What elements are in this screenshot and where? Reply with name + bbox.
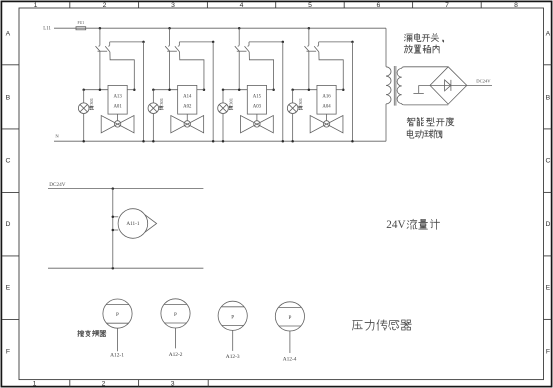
switch Q3 (2-pole linked contact): [235, 45, 249, 52]
switch Q2 (2-pole linked contact): [165, 45, 179, 52]
wire: branch 1 coil node horizontals: [82, 88, 134, 91]
switch Q4 (2-pole linked contact): [304, 45, 318, 52]
transformer T1 secondary winding: [397, 68, 402, 103]
transformer T1 core: [394, 66, 396, 106]
svg-text:F: F: [546, 348, 550, 355]
svg-text:A12-1: A12-1: [110, 353, 124, 359]
node: branch 4 tap on L11 bus: [308, 27, 311, 30]
svg-text:7: 7: [445, 2, 449, 9]
node: branch 2 tap on L11 bus: [168, 27, 171, 30]
wire L11 bus: [54, 27, 386, 29]
svg-text:A12-3: A12-3: [226, 354, 240, 360]
svg-text:F: F: [6, 348, 10, 355]
svg-text:B: B: [546, 94, 551, 101]
wire: branch 4 left pole down to coil node: [308, 51, 310, 89]
pressure sensor A12-2: [161, 299, 190, 358]
wire: branch 2 left pole down to coil node: [169, 51, 171, 89]
svg-text:L11: L11: [43, 27, 51, 32]
motor ball valve V2: [171, 116, 204, 133]
svg-text:B: B: [6, 94, 11, 101]
wire: branch 3 return vertical to N: [282, 42, 285, 143]
svg-text:A02: A02: [183, 104, 192, 109]
svg-text:P: P: [231, 314, 234, 320]
wire: branch 4 return vertical to N: [351, 42, 354, 143]
svg-text:A14: A14: [183, 94, 192, 99]
net label N: [55, 133, 59, 138]
svg-text:DC24V: DC24V: [49, 182, 65, 188]
svg-text:301: 301: [298, 97, 303, 105]
wire: secondary to rectifier top: [402, 67, 449, 69]
lamp HL3 (indicator): [218, 90, 229, 143]
lamp label (rotated) 301: [298, 97, 303, 110]
transformer T1 primary winding: [386, 67, 391, 104]
pressure sensor A12-3: [218, 301, 247, 360]
svg-text:3: 3: [171, 381, 175, 388]
bridge rectifier U1 (diamond): [430, 67, 467, 104]
right ruler ticks: [544, 65, 552, 320]
left ruler row letters A-F: [5, 30, 10, 355]
svg-text:301: 301: [159, 97, 164, 105]
svg-text:A: A: [6, 30, 11, 37]
wire: branch 1 right pole step down to box: [110, 52, 136, 91]
lamp label (rotated) 301: [229, 97, 234, 110]
svg-text:P: P: [288, 315, 291, 321]
svg-text:DC24V: DC24V: [476, 79, 491, 84]
net label L11: [43, 27, 51, 32]
wire: branch 2 coil node horizontals: [152, 88, 204, 91]
svg-text:3: 3: [171, 2, 175, 9]
pressure sensor A12-4: [275, 302, 304, 363]
flow meter A11-1: [118, 209, 157, 239]
top ruler ticks: [70, 2, 481, 8]
svg-text:A13: A13: [113, 94, 122, 99]
svg-text:1: 1: [34, 2, 38, 9]
lamp HL1 (indicator): [78, 90, 89, 143]
svg-text:A04: A04: [322, 104, 331, 109]
svg-text:E: E: [546, 285, 551, 292]
wire: branch 3 left pole down to coil node: [238, 51, 240, 89]
wire: branch 2 right pole step down to box: [180, 52, 206, 91]
wire: DC output: [467, 84, 492, 86]
svg-text:A01: A01: [113, 104, 122, 109]
wire: branch 1 return vertical to N: [142, 42, 145, 143]
wire N bus: [54, 140, 386, 142]
net label DC24V: [476, 79, 491, 84]
wire: box to valve stem: [186, 114, 188, 121]
wire: DC24V top line: [48, 187, 203, 190]
wire: branch 3 right pole step down to box: [249, 52, 275, 91]
svg-text:A11-1: A11-1: [126, 221, 139, 227]
rectifier mid line: [419, 84, 467, 86]
note: smart valve line 1: [407, 117, 454, 126]
wire: branch 1 drop to switch: [99, 28, 101, 45]
wire: branch 2 right pole feed from return line: [179, 41, 214, 46]
note: pressure sensor: [353, 320, 412, 331]
actuator module A14/A02: [178, 85, 197, 114]
svg-text:P: P: [116, 312, 119, 318]
wire: branch 4 right pole step down to box: [319, 52, 345, 91]
wire: box to valve stem: [256, 114, 258, 121]
svg-text:C: C: [5, 158, 10, 165]
svg-text:2: 2: [102, 381, 106, 388]
wire: branch 3 right pole feed from return line: [249, 41, 284, 46]
top ruler column numbers 1-8: [34, 2, 519, 9]
wire: flow meter stubs: [112, 216, 119, 232]
wire: DC24V return line: [48, 267, 203, 270]
svg-text:A16: A16: [322, 94, 331, 99]
note: 24V flow meter: [386, 219, 439, 231]
left ruler ticks: [2, 65, 19, 320]
svg-text:301: 301: [89, 97, 94, 105]
diode D1 inside bridge: [445, 80, 451, 91]
svg-text:2: 2: [103, 2, 107, 9]
fuse FU1: [76, 21, 86, 30]
svg-text:A03: A03: [253, 104, 262, 109]
wire: branch 4 right pole feed from return line: [319, 41, 354, 46]
actuator module A16/A04: [317, 85, 336, 114]
lamp label (rotated) 301: [159, 97, 164, 110]
svg-text:FU1: FU1: [78, 21, 85, 25]
switch Q1 (2-pole linked contact): [96, 45, 110, 52]
svg-text:301: 301: [229, 97, 234, 105]
svg-text:4: 4: [240, 2, 244, 9]
svg-text:P: P: [174, 312, 177, 318]
svg-text:A12-2: A12-2: [169, 352, 183, 358]
svg-text:5: 5: [308, 2, 312, 9]
bottom ruler column numbers 1-3: [33, 381, 175, 388]
wire: flow meter drop: [112, 189, 114, 269]
motor ball valve V1: [101, 116, 134, 133]
right ruler row letters A-F: [545, 30, 550, 355]
note: smart valve line 2: [407, 130, 442, 138]
wire: branch 4 coil node horizontals: [291, 88, 343, 91]
node: branch 1 tap on L11 bus: [99, 27, 102, 30]
pressure sensor A12-1: [103, 299, 132, 359]
svg-text:A15: A15: [253, 94, 262, 99]
wire: branch 2 return vertical to N: [212, 42, 215, 143]
actuator module A15/A03: [247, 85, 266, 114]
actuator module A13/A01: [108, 85, 127, 114]
svg-text:8: 8: [514, 2, 518, 9]
motor ball valve V3: [241, 116, 274, 133]
svg-text:E: E: [6, 285, 11, 292]
wire: secondary to rectifier bottom: [402, 104, 449, 105]
svg-text:D: D: [545, 221, 550, 228]
svg-text:D: D: [5, 221, 10, 228]
wire: bus to transformer primary: [385, 28, 387, 67]
net label DC24V (flow meter): [49, 182, 65, 188]
wire: branch 3 drop to switch: [238, 28, 240, 45]
bottom ruler ticks: [70, 380, 208, 387]
wire: branch 3 coil node horizontals: [222, 88, 274, 91]
svg-text:C: C: [545, 158, 550, 165]
wire: branch 1 right pole feed from return line: [110, 41, 145, 46]
svg-text:A: A: [546, 30, 551, 37]
note: leakage switch line 2: [404, 45, 439, 53]
wire: primary return to N: [385, 104, 387, 141]
wire: box to valve stem: [326, 114, 328, 121]
svg-text:1: 1: [33, 381, 37, 388]
lamp HL2 (indicator): [148, 90, 159, 143]
wire: branch 4 drop to switch: [308, 28, 310, 45]
motor ball valve V4: [310, 116, 343, 133]
note: connect to VFD: [78, 330, 106, 336]
wire: box to valve stem: [117, 114, 119, 121]
node: branch 3 tap on L11 bus: [238, 27, 241, 30]
wire: branch 1 left pole down to coil node: [99, 51, 101, 89]
svg-text:6: 6: [377, 2, 381, 9]
svg-text:24V: 24V: [386, 219, 405, 231]
svg-text:N: N: [55, 133, 59, 138]
lamp HL4 (indicator): [287, 90, 298, 143]
lamp label (rotated) 301: [89, 97, 94, 110]
svg-text:A12-4: A12-4: [283, 357, 297, 363]
ground symbol on AC input: [413, 85, 423, 93]
wire: branch 2 drop to switch: [169, 28, 171, 45]
note: leakage switch line 1: [404, 33, 443, 42]
